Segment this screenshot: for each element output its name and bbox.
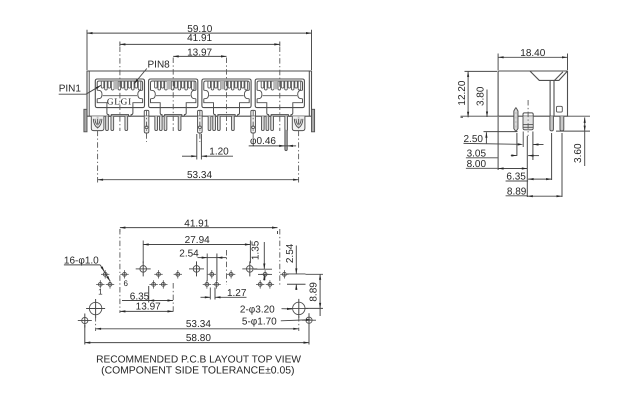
dim 6.35 (side) bbox=[506, 172, 552, 183]
dim 6.35 ext (pcb) bbox=[148, 286, 150, 303]
svg-text:41.91: 41.91 bbox=[184, 218, 209, 229]
svg-text:GLGI: GLGI bbox=[107, 97, 132, 107]
right shield tab bbox=[292, 116, 305, 130]
svg-text:13.97: 13.97 bbox=[136, 301, 161, 312]
centerline post 3-4 bbox=[252, 110, 254, 142]
pcb centerline port4 bbox=[279, 229, 281, 285]
dim 41.91 ext (pcb) bbox=[120, 229, 278, 234]
dim 3.05 bbox=[466, 148, 539, 159]
pcb post pad 2-3 bbox=[193, 266, 200, 273]
svg-text:(COMPONENT SIDE TOLERANCE±0.05: (COMPONENT SIDE TOLERANCE±0.05) bbox=[101, 365, 294, 376]
centerline port 1 bbox=[119, 47, 121, 132]
dim 13.97 (pcb) bbox=[120, 301, 173, 312]
RJ45 port 4 (front) bbox=[255, 79, 304, 116]
center post between ports 2-3 bbox=[198, 116, 203, 133]
housing inner edge lines bbox=[89, 71, 309, 116]
dim 13.97 (front) bbox=[173, 48, 226, 59]
dim 8.89 right refs bbox=[305, 274, 323, 308]
pcb hole centerline left bbox=[95, 316, 97, 331]
pin A centerline ext bbox=[516, 133, 518, 156]
RJ45 port 3 (front) bbox=[202, 79, 251, 116]
left shield ear bbox=[84, 109, 87, 132]
label 16-phi1.0 bbox=[64, 255, 111, 281]
dim 18.40 bbox=[498, 48, 567, 59]
label 5-phi1.70 bbox=[242, 317, 312, 328]
dim 27.94 ext bbox=[143, 241, 250, 264]
dim 1.35 bbox=[250, 240, 272, 280]
svg-text:41.91: 41.91 bbox=[187, 33, 212, 44]
side view latch hole bbox=[557, 106, 563, 112]
pin D centerline ext bbox=[561, 133, 563, 197]
dim 2.54 (pcb top) bbox=[179, 249, 226, 260]
post edge ext lines bbox=[523, 132, 533, 161]
svg-text:1: 1 bbox=[98, 288, 103, 297]
pcb corner ext left bbox=[84, 325, 86, 345]
centerline right tab bbox=[298, 119, 300, 184]
centerline port 3 bbox=[226, 58, 228, 132]
svg-text:2.54: 2.54 bbox=[285, 243, 296, 263]
dim 18.40 ext bbox=[498, 54, 567, 71]
dim 41.91 (pcb) bbox=[120, 218, 278, 229]
center post between ports 1-2 bbox=[144, 116, 149, 133]
pin A tip reference line bbox=[484, 131, 518, 133]
centerline post 1-2 bbox=[146, 110, 148, 142]
pin bottom ref right bbox=[556, 130, 590, 132]
dim 58.80 bbox=[85, 333, 309, 344]
svg-text:PIN8: PIN8 bbox=[148, 59, 171, 70]
dim 59.10 bbox=[87, 24, 312, 35]
dim 1.27 bbox=[201, 288, 247, 299]
pcb pads port 1 bbox=[96, 270, 129, 289]
dim 2.54 right ref lines bbox=[287, 274, 306, 284]
centerline post 2-3 bbox=[199, 110, 201, 142]
svg-text:18.40: 18.40 bbox=[520, 48, 545, 59]
pcb pads port 3 bbox=[203, 270, 236, 289]
dim 1.20 bbox=[182, 146, 233, 157]
body left edge ext bbox=[497, 117, 499, 170]
pcb corner pad left phi1.70 bbox=[82, 317, 88, 323]
svg-text:27.94: 27.94 bbox=[185, 235, 210, 246]
side pin A contact bbox=[514, 108, 518, 131]
dim phi0.46 pin extension bbox=[285, 130, 287, 151]
label PIN1 bbox=[59, 83, 102, 94]
dim 12.20 ext bbox=[461, 71, 498, 117]
dim 41.91 extension lines bbox=[120, 42, 280, 47]
pcb hole centerline right bbox=[298, 316, 300, 331]
post head between ports 3-4 bbox=[251, 110, 256, 116]
side view board line right ext bbox=[568, 115, 591, 117]
pcb pads port 2 bbox=[149, 270, 182, 289]
dim 1.20 extension lines bbox=[197, 134, 202, 160]
dim 1.27 ext bbox=[210, 288, 215, 300]
dim 59.10 extension lines bbox=[87, 30, 312, 70]
post centerline ext bbox=[526, 136, 528, 197]
svg-text:53.34: 53.34 bbox=[187, 170, 212, 181]
pcb pads port 4 bbox=[256, 270, 289, 289]
svg-text:φ0.46: φ0.46 bbox=[250, 136, 276, 147]
svg-text:PIN1: PIN1 bbox=[59, 83, 82, 94]
svg-text:2-φ3.20: 2-φ3.20 bbox=[240, 304, 275, 315]
dim 8.89 (pcb) bbox=[309, 274, 322, 316]
pcb post pad 1-2 bbox=[140, 266, 147, 273]
side post pin B bbox=[523, 116, 533, 130]
contact pins row (front) bbox=[106, 116, 288, 130]
dim 2.54 (pcb right) bbox=[285, 243, 298, 290]
pcb centerline port2 bbox=[172, 283, 174, 313]
left shield tab bbox=[91, 116, 104, 130]
RJ45 port 2 (front) bbox=[149, 79, 198, 116]
svg-text:RECOMMENDED P.C.B LAYOUT TOP V: RECOMMENDED P.C.B LAYOUT TOP VIEW bbox=[96, 355, 301, 366]
center post between ports 3-4 bbox=[251, 116, 256, 133]
pin C centerline ext bbox=[551, 133, 553, 180]
svg-text:1.35: 1.35 bbox=[250, 240, 261, 260]
pcb post pad 3-4 bbox=[247, 266, 254, 273]
dim 41.91 (front) bbox=[120, 33, 280, 46]
pcb mount hole left phi3.20 bbox=[89, 302, 101, 314]
dim 12.20 bbox=[457, 71, 469, 117]
side post centerline bbox=[527, 100, 529, 136]
dim 6.35 (pcb) bbox=[122, 291, 173, 302]
RJ45 port 1 (front) bbox=[95, 79, 144, 116]
dim 8.89 (side) bbox=[506, 186, 562, 197]
side view inner slot walls bbox=[550, 72, 563, 116]
dim 53.34 (front) bbox=[98, 170, 299, 181]
right shield ear bbox=[312, 109, 315, 132]
side view top notch bbox=[530, 71, 568, 80]
svg-text:3.80: 3.80 bbox=[476, 86, 487, 106]
centerline port 2 bbox=[172, 58, 174, 132]
svg-text:8.89: 8.89 bbox=[309, 282, 320, 302]
side view body outline bbox=[498, 71, 567, 116]
dim 27.94 bbox=[143, 235, 250, 246]
pcb corner pad right phi1.70 bbox=[306, 317, 312, 323]
svg-text:2.54: 2.54 bbox=[179, 249, 199, 260]
svg-text:1.20: 1.20 bbox=[209, 146, 229, 157]
dim phi0.46 bbox=[249, 136, 296, 147]
svg-text:12.20: 12.20 bbox=[457, 80, 468, 105]
dim 53.34 (pcb) bbox=[96, 319, 299, 330]
post head between ports 1-2 bbox=[144, 110, 149, 116]
dim 3.80 bbox=[476, 86, 489, 117]
pcb centerline port1 bbox=[119, 229, 121, 313]
dim 2.50 bbox=[464, 132, 544, 145]
svg-text:3.60: 3.60 bbox=[573, 143, 584, 163]
dim 8.00 bbox=[466, 159, 527, 170]
side view board line left ext bbox=[461, 115, 499, 117]
pcb mount hole right phi3.20 bbox=[293, 302, 305, 314]
label 2-phi3.20 bbox=[240, 304, 293, 315]
front view housing outline bbox=[87, 71, 312, 116]
svg-text:6: 6 bbox=[123, 279, 128, 288]
post head between ports 2-3 bbox=[198, 110, 203, 116]
svg-text:53.34: 53.34 bbox=[186, 319, 211, 330]
dim 3.60 bbox=[573, 117, 586, 166]
pcb corner ext right bbox=[308, 325, 310, 345]
side pin D bbox=[560, 116, 564, 131]
label PIN8 bbox=[133, 59, 170, 84]
pcb centerline port3 bbox=[226, 250, 228, 285]
centerline port 4 bbox=[279, 47, 281, 132]
side pin C bbox=[550, 116, 554, 131]
svg-text:1.27: 1.27 bbox=[227, 288, 247, 299]
side post shoulder bbox=[523, 113, 533, 116]
dim 2.54 ext (pcb top) bbox=[207, 254, 217, 282]
svg-text:58.80: 58.80 bbox=[186, 333, 211, 344]
svg-text:5-φ1.70: 5-φ1.70 bbox=[242, 317, 277, 328]
svg-text:13.97: 13.97 bbox=[187, 48, 212, 59]
centerline left tab bbox=[97, 119, 99, 184]
